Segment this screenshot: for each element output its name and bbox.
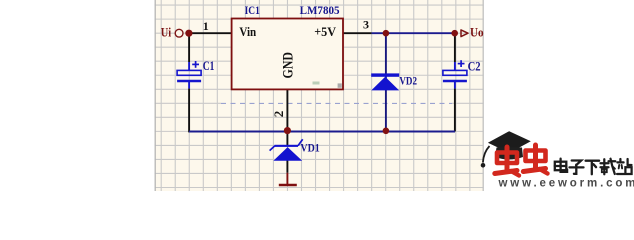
- watermark logo: graduation cap: [481, 131, 531, 167]
- port Uo arrow: [461, 30, 468, 37]
- svg-text:IC1: IC1: [245, 3, 260, 17]
- regulator IC1 body: [232, 19, 343, 90]
- svg-text:VD1: VD1: [300, 140, 319, 154]
- junction dot VD2 top node: [383, 30, 390, 37]
- wire: output run to Uo: [372, 32, 455, 34]
- junction dot VD1 rail node: [284, 127, 291, 134]
- wire: power port stem: [286, 173, 288, 185]
- artifact green mark: [313, 82, 320, 85]
- svg-text:GND: GND: [281, 52, 297, 79]
- svg-text:www.eeworm.com: www.eeworm.com: [498, 178, 634, 190]
- svg-text:2: 2: [271, 111, 286, 118]
- capacitor C1: [177, 61, 201, 81]
- svg-text:LM7805: LM7805: [300, 3, 340, 17]
- ground symbol bar: [279, 184, 297, 186]
- wire: VD2 branch vertical: [385, 33, 387, 131]
- watermark char chong 2: [523, 145, 547, 174]
- port Ui circle: [175, 29, 183, 37]
- wire: pin 3 stub: [343, 32, 372, 34]
- watermark char xia: [586, 161, 600, 175]
- wire: C2 branch vertical: [454, 33, 456, 62]
- capacitor C2: [443, 60, 467, 81]
- svg-text:+5V: +5V: [314, 24, 336, 39]
- junction dot output node: [451, 30, 458, 37]
- dashed guide line: [221, 102, 452, 104]
- watermark char zhan: [617, 159, 632, 174]
- watermark char zi: [570, 161, 584, 174]
- svg-text:1: 1: [203, 19, 209, 33]
- watermark char chong 1: [495, 147, 519, 176]
- svg-text:Uo: Uo: [470, 26, 484, 40]
- wire: input Ui to pin 1: [189, 32, 232, 34]
- wire: C1 branch vertical: [188, 33, 190, 62]
- junction dot input node: [185, 30, 192, 37]
- junction dot VD2 rail node: [383, 128, 390, 135]
- diode VD1 zener: [270, 139, 303, 161]
- watermark char zai: [601, 159, 616, 175]
- diode VD2: [371, 73, 399, 90]
- svg-text:C1: C1: [203, 59, 215, 73]
- svg-text:Vin: Vin: [239, 24, 256, 39]
- artifact grey square: [338, 83, 342, 87]
- svg-text:Ui: Ui: [161, 26, 172, 40]
- svg-text:C2: C2: [468, 60, 481, 74]
- svg-text:VD2: VD2: [399, 74, 417, 88]
- watermark char dian: [555, 159, 567, 172]
- wire: pin 2 stub: [286, 89, 288, 131]
- wire: VD1 branch: [286, 132, 288, 146]
- svg-text:3: 3: [363, 18, 369, 32]
- wire: ground rail: [189, 131, 455, 133]
